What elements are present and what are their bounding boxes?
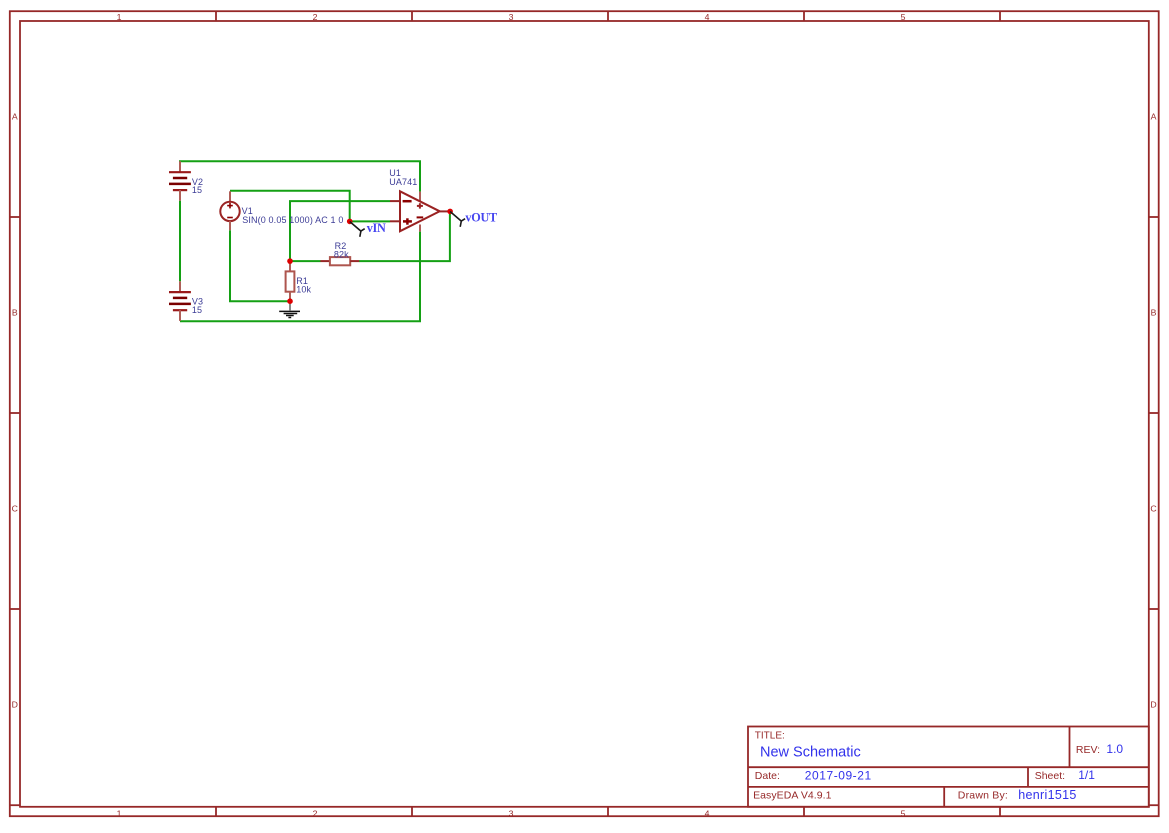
svg-text:TITLE:: TITLE: bbox=[755, 731, 785, 742]
svg-text:2: 2 bbox=[313, 12, 318, 22]
svg-text:5: 5 bbox=[901, 12, 906, 22]
svg-text:D: D bbox=[12, 700, 18, 710]
svg-text:B: B bbox=[1151, 308, 1157, 318]
svg-text:82k: 82k bbox=[334, 250, 349, 260]
svg-text:2017-09-21: 2017-09-21 bbox=[805, 768, 872, 782]
svg-text:A: A bbox=[1151, 112, 1157, 122]
svg-text:C: C bbox=[12, 504, 18, 514]
svg-text:1.0: 1.0 bbox=[1106, 742, 1123, 756]
svg-text:vIN: vIN bbox=[367, 221, 386, 235]
svg-text:SIN(0 0.05 1000) AC 1 0: SIN(0 0.05 1000) AC 1 0 bbox=[242, 215, 343, 225]
svg-text:C: C bbox=[1150, 504, 1156, 514]
svg-text:3: 3 bbox=[509, 808, 514, 818]
svg-text:New Schematic: New Schematic bbox=[760, 744, 861, 760]
svg-text:A: A bbox=[12, 112, 18, 122]
svg-text:EasyEDA V4.9.1: EasyEDA V4.9.1 bbox=[753, 790, 832, 802]
svg-text:henri1515: henri1515 bbox=[1018, 788, 1076, 802]
svg-text:2: 2 bbox=[313, 808, 318, 818]
svg-text:vOUT: vOUT bbox=[465, 210, 497, 224]
svg-text:1: 1 bbox=[117, 808, 122, 818]
svg-text:15: 15 bbox=[192, 185, 202, 195]
svg-text:D: D bbox=[1150, 700, 1156, 710]
svg-text:REV:: REV: bbox=[1076, 744, 1100, 756]
svg-text:B: B bbox=[12, 308, 18, 318]
svg-text:1: 1 bbox=[117, 12, 122, 22]
svg-text:5: 5 bbox=[901, 808, 906, 818]
svg-text:4: 4 bbox=[705, 808, 710, 818]
svg-text:4: 4 bbox=[705, 12, 710, 22]
svg-text:Date:: Date: bbox=[755, 770, 780, 782]
svg-text:UA741: UA741 bbox=[389, 177, 417, 187]
svg-text:3: 3 bbox=[509, 12, 514, 22]
svg-text:Sheet:: Sheet: bbox=[1035, 770, 1065, 782]
svg-text:1/1: 1/1 bbox=[1078, 768, 1095, 782]
svg-text:15: 15 bbox=[192, 305, 202, 315]
svg-text:10k: 10k bbox=[296, 284, 311, 294]
svg-text:Drawn By:: Drawn By: bbox=[958, 790, 1008, 802]
